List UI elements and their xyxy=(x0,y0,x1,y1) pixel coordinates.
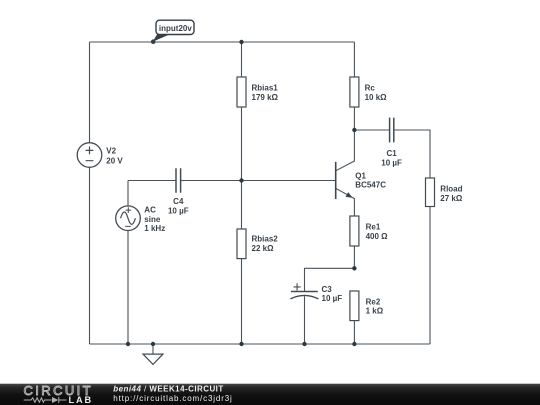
svg-text:V2: V2 xyxy=(106,147,116,156)
svg-text:Rc: Rc xyxy=(365,84,376,93)
svg-text:10 µF: 10 µF xyxy=(168,206,189,215)
svg-text:Rbias2: Rbias2 xyxy=(252,235,279,244)
svg-text:10 kΩ: 10 kΩ xyxy=(365,93,388,102)
svg-text:Re2: Re2 xyxy=(366,297,381,306)
svg-text:Rbias1: Rbias1 xyxy=(252,84,279,93)
svg-text:10 µF: 10 µF xyxy=(381,158,402,167)
svg-text:10 µF: 10 µF xyxy=(322,294,343,303)
svg-text:input20v: input20v xyxy=(159,24,192,33)
svg-text:179 kΩ: 179 kΩ xyxy=(252,93,279,102)
svg-text:C3: C3 xyxy=(322,285,333,294)
svg-text:http://circuitlab.com/c3jdr3j: http://circuitlab.com/c3jdr3j xyxy=(113,394,232,403)
svg-text:BC547C: BC547C xyxy=(355,181,386,190)
svg-text:beni44 / WEEK14-CIRCUIT: beni44 / WEEK14-CIRCUIT xyxy=(113,384,223,393)
svg-text:AC: AC xyxy=(144,206,156,215)
svg-text:400 Ω: 400 Ω xyxy=(366,232,389,241)
svg-text:1 kΩ: 1 kΩ xyxy=(366,307,384,316)
svg-text:20 V: 20 V xyxy=(106,156,123,165)
svg-text:1 kHz: 1 kHz xyxy=(144,224,165,233)
svg-text:27 kΩ: 27 kΩ xyxy=(440,194,463,203)
svg-text:LAB: LAB xyxy=(69,395,94,405)
svg-text:22 kΩ: 22 kΩ xyxy=(252,244,275,253)
svg-text:C4: C4 xyxy=(173,197,184,206)
svg-text:Re1: Re1 xyxy=(366,223,381,232)
svg-text:sine: sine xyxy=(144,215,161,224)
svg-text:Q1: Q1 xyxy=(355,171,366,180)
svg-text:C1: C1 xyxy=(386,149,397,158)
svg-text:Rload: Rload xyxy=(440,184,462,193)
